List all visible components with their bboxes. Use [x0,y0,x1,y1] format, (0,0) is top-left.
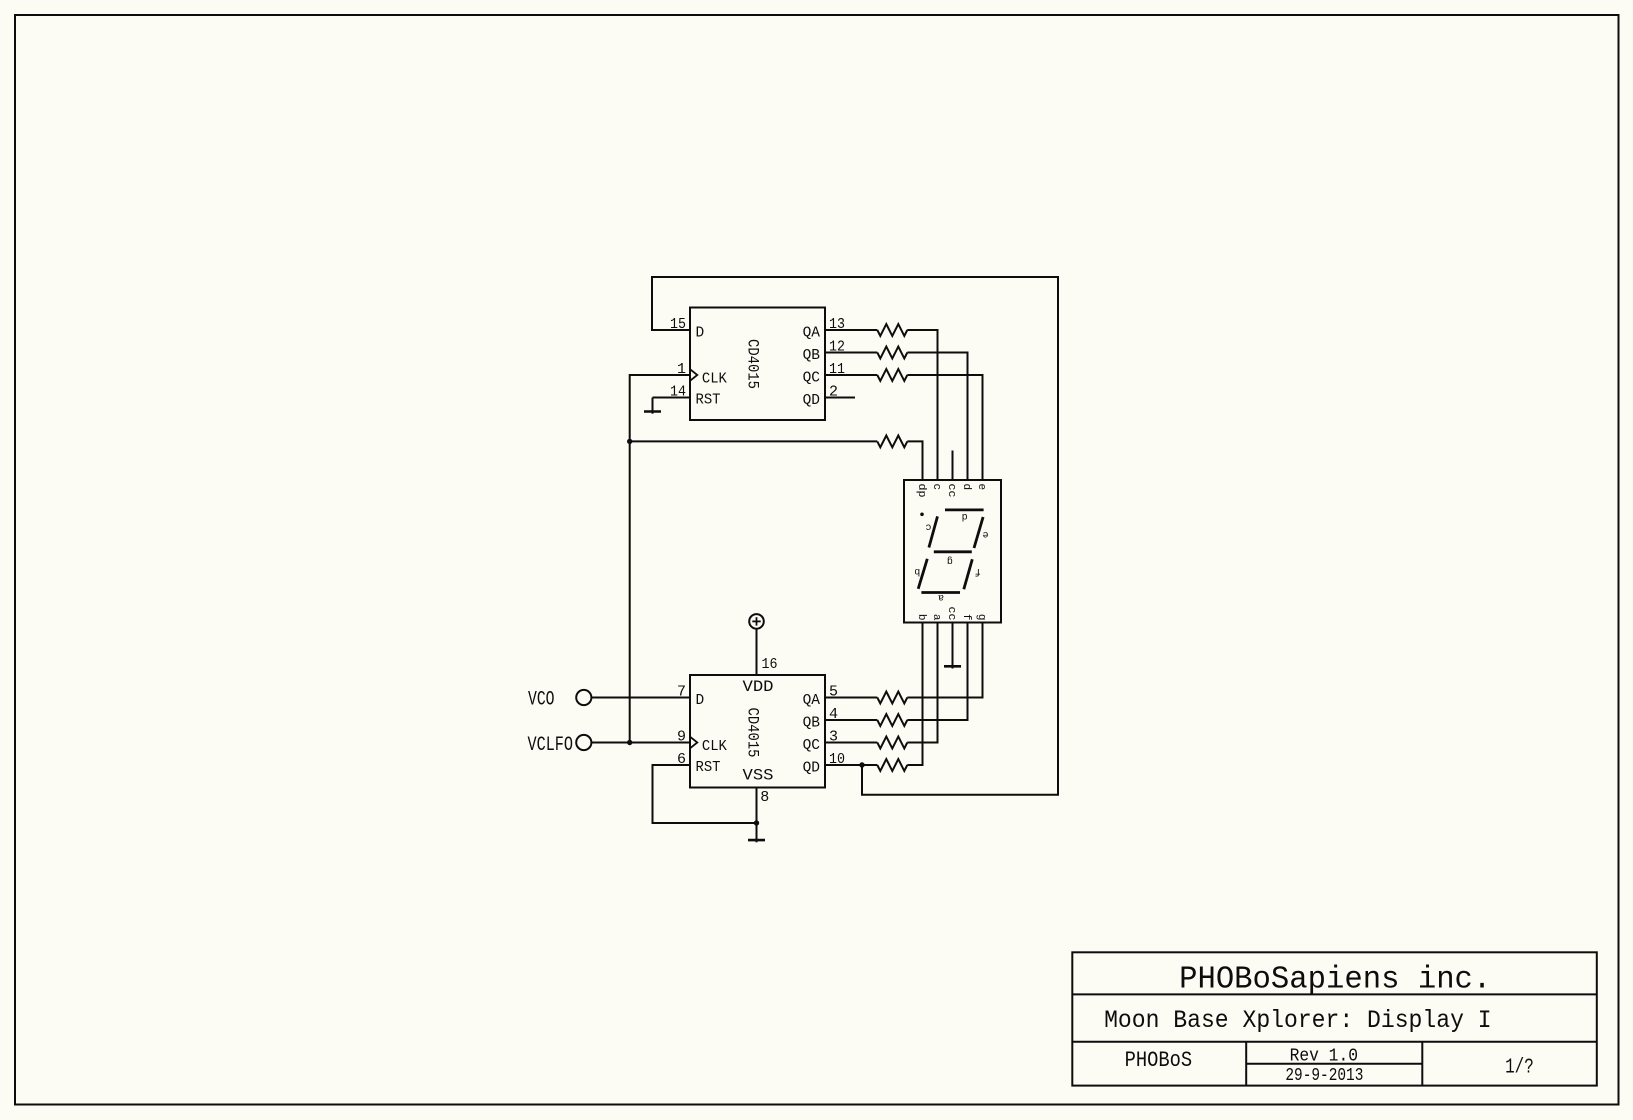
svg-text:Moon Base Xplorer: Display I: Moon Base Xplorer: Display I [1104,1006,1492,1035]
wire U1 QD pin 2 stub [825,397,855,399]
svg-text:VDD: VDD [743,678,774,696]
DISP1 segment f (lower right) [964,559,973,589]
DISP1 decimal point [920,513,924,517]
svg-text:QA: QA [803,693,821,709]
svg-text:QA: QA [803,325,821,341]
svg-text:QC: QC [803,738,821,754]
svg-text:PHOBoS: PHOBoS [1125,1048,1193,1073]
svg-text:Rev 1.0: Rev 1.0 [1290,1047,1358,1067]
node junction clock/R4 [627,439,632,444]
wire clock net vertical [630,375,690,743]
wire R6 to display pin f [907,623,967,721]
wire U1 QB to resistor R2 [825,352,877,354]
DISP1 top stub pin cc [952,451,954,481]
U2 CLK clock triangle [690,737,697,749]
terminal VCO [576,690,591,705]
svg-text:e: e [975,484,987,491]
wire DISP1 cc (bottom) to ground [952,623,954,669]
wire R5 to display pin g [907,623,982,698]
svg-text:a: a [938,591,944,602]
wire R3 to display pin e [907,375,982,480]
svg-text:16: 16 [762,656,778,673]
svg-text:dp: dp [915,484,927,498]
svg-text:QC: QC [803,370,821,386]
svg-text:b: b [914,565,920,577]
wire R4 to display pin dp [907,441,922,480]
wire R7 to display pin a [907,623,937,743]
svg-text:d: d [962,510,968,522]
svg-text:RST: RST [696,760,721,776]
node junction VSS/RST [754,820,759,825]
7-segment display DISP1 body [904,480,1001,623]
wire VDD to U2 pin 16 [756,629,758,675]
resistor R8 [877,759,907,771]
resistor R7 [877,737,907,749]
wire VCLFO to U2 CLK [591,742,690,744]
svg-text:VCLFO: VCLFO [528,734,574,757]
svg-text:D: D [696,693,705,709]
resistor R5 [877,692,907,704]
node junction U2 QD feedback [859,762,864,767]
wire U1 QA to display pin c with resistor R1 lead [825,329,877,331]
wire U1 QC to resistor R3 [825,374,877,376]
svg-text:d: d [960,484,972,491]
svg-text:CD4015: CD4015 [744,339,762,389]
wire U2 RST to VSS node [653,765,757,823]
IC U1 CD4015 body [690,308,825,421]
svg-text:RST: RST [696,393,721,409]
DISP1 segment e (upper right) [974,517,983,548]
wire U2 QC to resistor R7 [825,742,877,744]
DISP1 segment b (lower left) [918,559,927,589]
svg-text:QD: QD [803,393,820,409]
wire feedback net: U2 QD to U1 D [652,277,1058,795]
svg-text:VSS: VSS [743,767,774,785]
wire R8 to display pin b [907,623,922,766]
wire U2 QB to resistor R6 [825,719,877,721]
svg-text:29-9-2013: 29-9-2013 [1285,1066,1363,1086]
svg-text:CLK: CLK [702,372,727,388]
svg-text:CD4015: CD4015 [744,708,762,758]
resistor R3 [877,369,907,381]
svg-text:e: e [982,528,988,539]
resistor R2 [877,347,907,359]
terminal VCLFO [576,735,591,750]
svg-text:QB: QB [803,715,821,731]
wire U2 VSS pin 8 down [756,788,758,824]
wire R2 to display pin d [907,353,967,481]
wire R1 to display pin c [907,330,937,480]
svg-text:cc: cc [945,607,957,621]
DISP1 segment bar d (top) [945,508,984,511]
svg-text:g: g [975,614,987,621]
resistor R4 [877,436,907,448]
svg-text:8: 8 [760,789,769,806]
VDD plus sign [756,617,758,625]
node junction VCLFO/clock vertical [627,740,632,745]
svg-text:D: D [696,325,705,341]
ground symbol at U1 RST [652,398,654,414]
wire VCO to U2 D [591,697,690,699]
ground symbol at U2 VSS [756,823,758,842]
wire U2 QD to resistor R8 [825,764,877,766]
IC U2 CD4015 body [690,675,825,788]
svg-text:CLK: CLK [702,739,727,755]
svg-text:QD: QD [803,760,820,776]
svg-text:f: f [975,565,981,577]
svg-text:1/?: 1/? [1505,1056,1534,1079]
resistor R1 [877,324,907,336]
svg-text:cc: cc [945,484,957,498]
wire U1 RST to ground [653,397,691,399]
svg-text:g: g [947,555,953,566]
DISP1 segment c (upper left) [929,516,938,547]
svg-text:f: f [960,614,972,621]
svg-text:a: a [930,614,942,621]
wire U2 QA to resistor R5 [825,697,877,699]
svg-text:c: c [925,521,931,532]
DISP1 segment bar a (bottom) [921,591,960,594]
DISP1 segment bar g (middle) [934,550,972,553]
title block frame [1072,952,1597,1085]
svg-text:QB: QB [803,348,821,364]
svg-text:c: c [930,484,942,491]
svg-text:VCO: VCO [528,688,555,711]
svg-text:b: b [915,614,927,621]
U1 CLK clock triangle [690,369,697,381]
wire clock net to resistor R4 [630,440,878,442]
resistor R6 [877,714,907,726]
svg-text:PHOBoSapiens inc.: PHOBoSapiens inc. [1179,961,1491,997]
VDD supply symbol [749,614,764,629]
